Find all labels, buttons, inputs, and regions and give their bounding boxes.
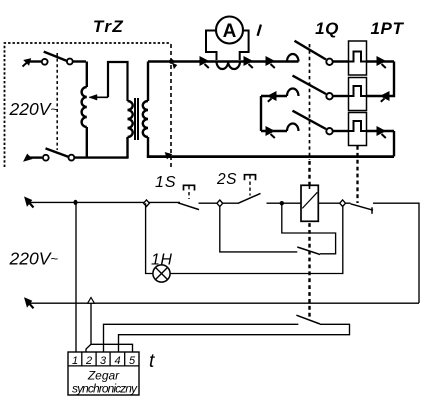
label I [258,25,261,36]
switch S-top left terminal circle [42,59,48,65]
autotransformer vertical + winding [86,62,88,88]
wire arrow into 1Q pole1 [266,57,274,65]
1Q pole2 pivot circle [326,93,332,99]
node T2 tap open arrow [88,298,95,304]
1Q pole2 left wire + arrow [261,95,287,97]
coil K1 (release coil of 1Q) [301,185,318,221]
ammeter lead left [206,31,217,61]
wire secondary top to CT [148,60,287,62]
ammeter lead right [240,31,249,61]
thermal relay 1PT box3 [349,113,367,146]
svg-text:5: 5 [129,355,136,367]
1Q pole1 blade [295,41,327,60]
contact t timer (NO) blade [296,315,320,324]
svg-text:1PT: 1PT [371,19,405,38]
wire pole1 out right + arrow [367,60,395,62]
node diamond at aux branch [217,200,223,207]
node junction dot at clock feed [74,200,78,205]
1PT heater3 [349,121,367,131]
wire to right corner [373,203,419,303]
switch S-bottom: supply arrow [24,155,32,162]
TrZ enclosure dashed box [5,43,172,168]
wire bottom control rail [28,302,419,304]
aux contact right side loop up to coil left [282,203,336,254]
switch S-bottom left terminal circle [43,155,49,161]
1Q pole1 wires [287,60,349,62]
svg-text:TrZ: TrZ [93,17,124,36]
bottom rail: arrow left end [30,304,34,309]
wire pole3 out right + arrow [367,130,395,132]
terminal numbers [72,355,136,367]
svg-text:1S: 1S [155,174,177,191]
1PT heater2 [349,86,367,96]
node diamond at lamp branch [144,200,150,207]
svg-text:4: 4 [114,355,120,367]
transformer primary winding [128,101,133,137]
wire right loop pole1-pole2 [367,62,395,97]
svg-text:1H: 1H [151,252,172,269]
wire line A (T3 to timer contact) [104,324,299,352]
1Q pole2 right wire [333,95,349,97]
1Q pole3 left wire + arrow [261,130,287,132]
wire arrow right of CT [244,57,252,65]
pushbutton 1S blade (NC) [178,203,199,210]
switch S-top: supply arrow [23,63,28,67]
aux contact branch: drop from rail [220,206,297,252]
control rail top: arrow left end [30,203,34,208]
node crossing dot top (dashed edge x wire) [169,59,174,64]
svg-text:Zegar: Zegar [87,369,120,383]
1Q pole1 arc contact [287,54,299,61]
1PT heater1 [349,52,367,62]
1Q pole3 blade [293,111,327,129]
switch S-bottom blade [46,148,69,157]
node diamond coil right [340,200,346,207]
svg-text:synchroniczny: synchroniczny [72,382,138,396]
arrow at bottom crossing of dashed edge [165,153,171,159]
terminal row dividers [68,352,139,366]
svg-text:2S: 2S [216,171,237,188]
contact 1Q aux (NO) blade [297,247,320,255]
wire control rail left part [28,201,180,203]
wire T2 jog [86,344,91,352]
lamp branch: drop from rail [146,203,153,273]
terminal block box [68,352,139,395]
wire to autotransformer [73,60,86,62]
thermal relay 1PT box1 [349,41,367,75]
wire left loop pole2-pole3 [260,96,262,131]
switch S-top blade [44,52,67,61]
svg-text:220V~: 220V~ [9,249,59,269]
svg-text:1: 1 [72,355,78,367]
autotransformer tap arrow [90,96,109,98]
tap wire up and over to primary [108,62,128,101]
thermal relay 1PT box2 [349,78,367,111]
wire 2S to coil [267,202,302,204]
1Q pole3 pivot circle [326,128,332,134]
1Q pole2 arc contact [287,89,299,96]
1PT dashed trip link [356,146,358,203]
pushbutton 1S actuator [184,185,195,190]
wire T5 connector [91,344,133,352]
wire lamp right to coil-right node [170,206,343,274]
wire line B (T4 loop) [119,324,350,352]
svg-text:t: t [149,351,155,372]
breaker 1Q mechanical link dashed [309,44,311,160]
contact 1PT trip (NC with tick) [351,204,374,210]
wire bottom-left rail to primary [74,156,128,158]
ammeter U1 circle [216,17,243,44]
1Q pole1 pivot circle [326,59,332,65]
lamp 1H [153,265,170,282]
1Q pole2 blade [293,76,327,94]
mechanical link dashed of 2-pole switch [56,53,58,150]
wire bottom power rail [147,155,394,158]
wire right drop to bottom rail [393,131,395,156]
pushbutton 2S blade (NO) [238,193,261,203]
switch S-top wire stub [30,60,41,62]
wire drop to terminal 1 [75,202,77,352]
svg-text:220V~: 220V~ [9,99,59,119]
node junction dot coil left [280,201,284,205]
switch S-top right terminal circle [67,59,73,65]
wire rail between 1S and 2S [199,202,239,204]
svg-text:1Q: 1Q [315,19,339,38]
transformer core [135,98,138,140]
wire T2 drop [90,303,92,344]
switch S-bottom right terminal circle [69,155,75,161]
wire arrow current direction (left of CT) [200,57,208,65]
svg-text:2: 2 [85,355,92,367]
1Q pole3 right wire [333,130,349,132]
wire coil right [318,202,350,204]
current transformer bumps [217,62,241,70]
svg-text:A: A [223,21,237,42]
1Q pole3 arc contact [287,124,299,132]
transformer secondary winding [147,62,149,102]
svg-text:3: 3 [100,355,107,367]
pushbutton 2S actuator [245,175,256,181]
